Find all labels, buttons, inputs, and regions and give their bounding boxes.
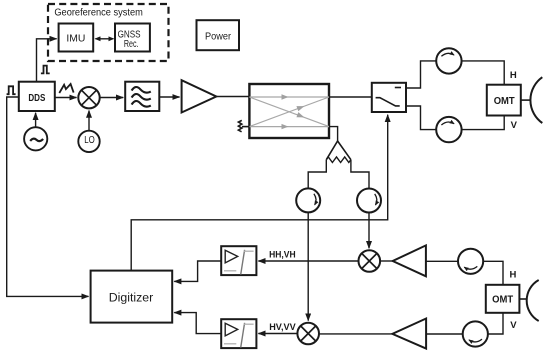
wire LO to mixer M1: [88, 111, 90, 131]
wire IMU-GNSS double arrow: [96, 38, 114, 40]
wire circulator TxV to OMT1: [462, 116, 505, 130]
wire circulator TxH to OMT1: [462, 61, 505, 84]
wire mixer M2 to filter F2: [258, 260, 358, 262]
sawtooth glyph: [59, 84, 73, 93]
wire left isolator to mixer M3: [307, 212, 309, 320]
wire switch to circulator V: [406, 106, 436, 130]
svg-text:H: H: [510, 270, 517, 281]
svg-text:HV,VV: HV,VV: [269, 322, 296, 333]
mixer M1: [78, 87, 99, 108]
amplifier A1: [182, 80, 217, 112]
wire hybrid to switch: [329, 96, 372, 98]
circulator RxV: [463, 321, 488, 346]
wire DDS trigger to Digitizer: [7, 97, 89, 296]
power supply box: [197, 20, 240, 50]
wire filter F1 to amplifier A1: [159, 96, 179, 98]
pulse glyph left of DDS: [7, 86, 16, 94]
circulator TxH: [436, 48, 461, 73]
wire Digitizer control to switch: [131, 115, 388, 271]
wire amplifier A1 to hybrid: [216, 96, 249, 98]
horn antenna 2: [519, 280, 538, 321]
mixer M3: [297, 323, 319, 345]
svg-text:Power: Power: [205, 31, 231, 43]
GNSS receiver box: [115, 24, 150, 52]
circulator TxV: [436, 117, 461, 142]
svg-text:Rec.: Rec.: [124, 38, 139, 50]
bandpass filter F1: [125, 82, 159, 111]
svg-text:HH,VH: HH,VH: [269, 249, 296, 260]
pulse glyph above DDS: [41, 66, 50, 74]
LO local oscillator: [78, 131, 99, 152]
wire oscillator to DDS: [35, 113, 37, 128]
wire DDS to mixer M1: [55, 97, 77, 99]
wire switch to circulator H: [406, 61, 436, 88]
wire circulator RxH to amplifier A2: [426, 260, 458, 262]
svg-text:LO: LO: [84, 135, 95, 146]
svg-text:OMT: OMT: [492, 295, 513, 306]
video filter F2: [221, 246, 256, 275]
horn antenna 1: [521, 77, 543, 123]
wire amplifier A3 to mixer M3: [319, 333, 392, 335]
wire mixer M3 to filter F3: [258, 333, 297, 335]
svg-text:Georeference system: Georeference system: [54, 7, 143, 18]
isolator right: [357, 189, 381, 213]
svg-text:V: V: [510, 320, 517, 331]
reference oscillator: [24, 127, 47, 150]
georeference dashed box: [48, 4, 169, 61]
Digitizer box: [91, 271, 173, 323]
wire right isolator to mixer M2: [368, 213, 370, 249]
DDS box: [19, 82, 55, 111]
svg-text:DDS: DDS: [28, 93, 45, 104]
wire filter F3 to Digitizer: [174, 313, 221, 334]
svg-text:H: H: [510, 70, 517, 81]
wire amplifier A2 to mixer M2: [380, 260, 393, 262]
OMT2 box: [486, 285, 520, 313]
wire OMT2 V port to circulator RxV: [488, 313, 503, 334]
wire hybrid to power divider: [329, 127, 338, 141]
power divider with isolation resistor: [308, 141, 369, 189]
wire DDS to IMU: [37, 39, 57, 82]
terminating resistor on hybrid: [238, 120, 249, 131]
circulator RxH: [458, 249, 483, 274]
hybrid coupler box: [249, 84, 329, 138]
svg-text:IMU: IMU: [66, 32, 85, 44]
wire OMT2 H port to circulator RxH: [483, 261, 503, 285]
svg-text:OMT: OMT: [494, 96, 515, 107]
IMU box U-IMU: [59, 24, 94, 52]
svg-text:Digitizer: Digitizer: [109, 293, 154, 305]
wire filter F2 to Digitizer: [174, 261, 221, 281]
video filter F3: [221, 319, 256, 348]
wire mixer M1 to bandpass filter: [100, 97, 124, 99]
wire circulator RxV to amplifier A3: [426, 333, 463, 335]
isolator left: [296, 188, 320, 212]
svg-text:V: V: [511, 120, 518, 131]
amplifier A2: [393, 245, 426, 276]
amplifier A3: [392, 319, 426, 349]
OMT1 box: [487, 85, 521, 116]
transmit switch: [372, 83, 406, 112]
mixer M2: [359, 250, 381, 272]
